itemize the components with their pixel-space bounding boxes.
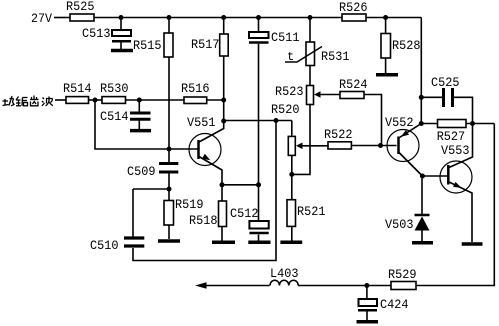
- wire L403 to R529: [300, 285, 391, 287]
- capacitor C511: [249, 18, 300, 46]
- svg-text:R528: R528: [392, 38, 421, 53]
- svg-text:C525: C525: [431, 75, 460, 90]
- char 齿: [30, 96, 39, 106]
- ground C424: [357, 320, 379, 324]
- svg-text:V503: V503: [385, 217, 414, 232]
- resistor R518: [189, 201, 227, 241]
- wire input branch down to V551 base: [95, 100, 198, 149]
- svg-text:R517: R517: [191, 37, 220, 52]
- svg-text:27V: 27V: [31, 11, 52, 26]
- ground C513: [111, 49, 133, 53]
- wire R526 to corner: [366, 17, 421, 19]
- svg-text:R520: R520: [271, 102, 300, 117]
- node junction V551 collector: [221, 119, 226, 124]
- svg-text:R530: R530: [100, 81, 129, 96]
- char 场: [3, 96, 15, 106]
- wire input to R514: [55, 99, 66, 101]
- svg-text:R521: R521: [297, 204, 326, 219]
- resistor R528: [381, 18, 421, 74]
- svg-text:R518: R518: [189, 213, 218, 228]
- svg-text:C511: C511: [271, 30, 300, 45]
- node junction C513: [119, 15, 124, 20]
- potentiometer R523: [275, 84, 340, 105]
- resistor R522: [324, 127, 397, 149]
- resistor R516: [181, 81, 224, 104]
- wire C511 down rail to C512: [258, 44, 260, 221]
- transistor V551: [187, 115, 224, 201]
- svg-text:C512: C512: [230, 206, 259, 221]
- char 波: [42, 97, 53, 106]
- resistor R515: [133, 18, 173, 58]
- wire R517 down: [223, 56, 225, 121]
- wire bottom output arrow: [195, 282, 207, 288]
- char 锯: [16, 97, 28, 106]
- node junction R514-R530: [93, 98, 98, 103]
- ground R521: [280, 241, 302, 245]
- svg-text:R525: R525: [66, 0, 95, 14]
- svg-text:R522: R522: [324, 127, 353, 142]
- wire feedback loop down-left: [133, 121, 276, 261]
- node 27V supply label: [31, 11, 52, 26]
- wire right rail down: [416, 124, 494, 286]
- wire top rail: [94, 17, 342, 19]
- resistor R527: [421, 120, 494, 145]
- resistor R519: [164, 197, 204, 239]
- node junction R523 return: [289, 172, 294, 177]
- node junction C509-R519: [167, 187, 172, 192]
- wire V552 collector to V553 base: [422, 175, 447, 177]
- svg-text:C424: C424: [380, 297, 409, 312]
- ground V503: [412, 241, 433, 245]
- resistor R524: [339, 77, 382, 146]
- transistor V552: [385, 115, 422, 176]
- node junction C514: [137, 98, 142, 103]
- capacitor C512: [230, 206, 269, 241]
- svg-text:R527: R527: [437, 129, 466, 144]
- inductor L403: [270, 266, 299, 286]
- wire R515 down rail: [168, 57, 170, 162]
- ground C514: [130, 129, 151, 133]
- node junction base rail: [167, 147, 172, 152]
- wire V551 emitter down: [220, 182, 225, 187]
- resistor R526: [339, 0, 368, 21]
- wire C510 top to C509 node: [133, 188, 169, 190]
- svg-text:R515: R515: [133, 38, 162, 53]
- svg-text:C513: C513: [82, 26, 111, 41]
- node junction feedback: [274, 118, 279, 123]
- wire 27V to R525: [54, 17, 70, 19]
- svg-text:V552: V552: [385, 115, 414, 130]
- svg-text:L403: L403: [270, 266, 299, 281]
- capacitor C513: [82, 18, 131, 50]
- node junction R524-R522: [378, 143, 383, 148]
- node junction R515: [167, 15, 172, 20]
- node junction V553 collector: [470, 121, 475, 126]
- node junction R531: [308, 15, 313, 20]
- svg-text:R523: R523: [275, 84, 304, 99]
- node junction R516-R517: [221, 98, 226, 103]
- svg-text:R526: R526: [339, 0, 368, 15]
- svg-text:R529: R529: [388, 267, 417, 282]
- capacitor C424: [358, 286, 409, 321]
- node junction C525 left: [419, 95, 424, 100]
- ground C512: [248, 241, 270, 245]
- ground R518: [212, 241, 235, 245]
- wire R531 to R523: [309, 66, 311, 86]
- svg-text:R514: R514: [63, 81, 92, 96]
- resistor R525: [66, 0, 95, 21]
- node junction C512: [256, 182, 261, 187]
- label sawtooth input (场锯齿波 drawn as strokes): [3, 96, 53, 106]
- diode V503: [385, 176, 430, 241]
- node junction V552 collector / V503: [420, 174, 425, 179]
- capacitor C509: [127, 164, 178, 201]
- svg-text:V553: V553: [441, 143, 470, 158]
- node junction V552 emitter rail: [419, 121, 424, 126]
- capacitor C514: [100, 100, 151, 129]
- wire rail down right: [420, 18, 422, 124]
- ground R528: [376, 73, 398, 77]
- svg-text:R519: R519: [175, 197, 204, 212]
- wire R523 bottom to R520 node: [292, 105, 310, 175]
- ground R519: [158, 239, 180, 243]
- wire emitter node to C512: [222, 184, 259, 186]
- capacitor C525: [421, 75, 472, 124]
- resistor R514: [63, 81, 102, 103]
- thermistor R531: [285, 18, 350, 66]
- resistor R529: [388, 267, 417, 290]
- wire R520 to R521: [291, 155, 293, 199]
- svg-text:R524: R524: [339, 77, 368, 92]
- wire collector node to R520: [224, 120, 292, 122]
- capacitor C510: [90, 189, 144, 253]
- ground V553 emitter: [462, 242, 483, 246]
- transistor V553: [440, 124, 473, 243]
- svg-text:C509: C509: [127, 164, 156, 179]
- svg-text:R516: R516: [181, 81, 210, 96]
- node junction R528: [383, 15, 388, 20]
- node junction C424: [364, 283, 369, 288]
- potentiometer R520: [271, 102, 328, 155]
- svg-text:V551: V551: [187, 115, 216, 130]
- svg-text:R531: R531: [321, 49, 350, 64]
- node junction R517: [221, 15, 226, 20]
- resistor R517: [191, 18, 228, 57]
- svg-text:C510: C510: [90, 238, 119, 253]
- resistor R521: [287, 200, 326, 241]
- node junction C511: [256, 15, 261, 20]
- resistor R530: [100, 81, 184, 103]
- svg-text:C514: C514: [100, 109, 129, 124]
